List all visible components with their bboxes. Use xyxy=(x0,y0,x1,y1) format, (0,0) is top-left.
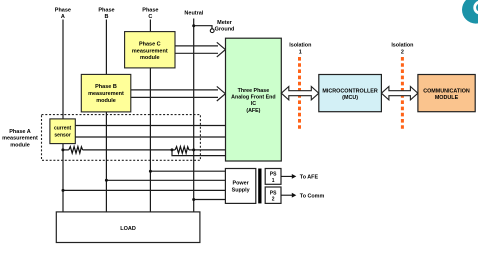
svg-text:C: C xyxy=(148,14,152,20)
wire shunt lead xyxy=(63,149,69,151)
svg-text:Analog Front End: Analog Front End xyxy=(231,95,275,101)
node junction shunt1-phaseA xyxy=(61,148,64,151)
svg-text:A: A xyxy=(61,14,65,20)
wire PS input from Phase C xyxy=(150,170,225,172)
svg-text:measurement: measurement xyxy=(132,48,168,54)
svg-text:module: module xyxy=(140,55,160,61)
svg-text:2: 2 xyxy=(401,49,404,55)
svg-text:module: module xyxy=(96,98,116,104)
node Isolation 2 label xyxy=(391,42,413,55)
svg-text:To Comm: To Comm xyxy=(300,193,325,199)
wire Phase B vertical xyxy=(105,20,107,212)
node Phase C label xyxy=(142,8,158,20)
isolation 1 dashed line xyxy=(298,57,301,131)
wire shunt1 to shunt2 xyxy=(83,149,172,151)
MCU box xyxy=(319,75,382,112)
svg-text:PS: PS xyxy=(270,172,277,178)
svg-text:(AFE): (AFE) xyxy=(246,108,260,114)
node Phase A label xyxy=(55,8,71,20)
resistor shunt 1 xyxy=(69,147,83,154)
svg-text:COMMUNICATION: COMMUNICATION xyxy=(423,88,470,94)
wire PS input from Phase A xyxy=(63,189,225,191)
wire current sensor output 2 xyxy=(75,136,225,138)
wire shunt2 leads xyxy=(172,149,175,151)
bidirectional arrow AFE-MCU xyxy=(281,87,319,100)
svg-text:B: B xyxy=(105,14,109,20)
arrow PS1 to AFE supply xyxy=(281,174,318,181)
Phase C measurement module box xyxy=(125,32,175,68)
power supply box xyxy=(225,169,255,204)
wire Neutral vertical xyxy=(193,19,195,212)
svg-text:Phase: Phase xyxy=(98,8,114,14)
svg-text:Phase A: Phase A xyxy=(9,129,31,135)
logo circle xyxy=(462,0,478,24)
PS 1 box xyxy=(265,169,281,185)
node Meter Ground label xyxy=(215,20,235,33)
block arrow Phase C to AFE xyxy=(175,42,225,57)
svg-text:sensor: sensor xyxy=(54,133,70,139)
node Isolation 1 label xyxy=(289,42,311,55)
svg-text:Meter: Meter xyxy=(217,20,233,26)
isolation 2 dashed line xyxy=(401,57,404,131)
svg-text:measurement: measurement xyxy=(2,136,38,142)
svg-text:Supply: Supply xyxy=(232,187,250,193)
node Phase B label xyxy=(98,8,114,20)
Phase B measurement module box xyxy=(81,74,131,112)
wire shunt line to AFE xyxy=(194,149,226,151)
svg-text:measurement: measurement xyxy=(88,91,124,97)
svg-text:Phase: Phase xyxy=(55,8,71,14)
node junction shunt2 left xyxy=(171,148,174,151)
svg-text:1: 1 xyxy=(272,178,275,184)
power supply isolation bar xyxy=(258,169,261,204)
bidirectional arrow MCU-COMM xyxy=(381,87,418,100)
svg-text:Phase: Phase xyxy=(142,8,158,14)
LOAD box xyxy=(56,212,200,243)
Phase A measurement module label xyxy=(2,129,38,149)
svg-text:2: 2 xyxy=(272,197,275,203)
resistor shunt 2 xyxy=(175,147,189,154)
wire current sensor output 1 xyxy=(75,125,225,127)
svg-text:MICROCONTROLLER: MICROCONTROLLER xyxy=(322,88,378,94)
svg-text:Isolation: Isolation xyxy=(391,42,413,48)
svg-text:LOAD: LOAD xyxy=(120,226,136,232)
current sensor box xyxy=(50,119,75,144)
AFE box xyxy=(226,38,282,161)
wire PS input from Neutral xyxy=(194,199,226,201)
wire kelvin sense line xyxy=(172,150,226,156)
svg-text:(MCU): (MCU) xyxy=(342,95,358,101)
communication module box xyxy=(418,75,475,112)
wire PS input from Phase B xyxy=(106,179,225,181)
svg-text:PS: PS xyxy=(270,190,277,196)
svg-text:current: current xyxy=(54,126,72,132)
svg-text:module: module xyxy=(10,143,30,149)
svg-text:MODULE: MODULE xyxy=(435,95,459,101)
svg-text:Power: Power xyxy=(233,180,250,186)
ground symbol xyxy=(210,29,214,33)
wire meter ground branch xyxy=(194,26,212,29)
svg-text:Isolation: Isolation xyxy=(289,42,311,48)
PS 2 box xyxy=(265,187,281,203)
svg-text:Ground: Ground xyxy=(215,26,235,32)
svg-text:IC: IC xyxy=(251,101,256,107)
wire Phase C vertical xyxy=(149,20,151,212)
svg-text:1: 1 xyxy=(299,49,302,55)
Phase A measurement module dashed boundary xyxy=(42,115,201,161)
svg-text:Neutral: Neutral xyxy=(184,10,203,16)
arrow PS2 to Comm supply xyxy=(281,193,324,200)
node junction neutral-ground xyxy=(192,24,195,27)
node junction shunt2-neutral xyxy=(192,148,195,151)
svg-text:Phase C: Phase C xyxy=(139,42,161,48)
svg-text:Three Phase: Three Phase xyxy=(238,88,270,94)
wire Phase A vertical xyxy=(62,20,64,212)
svg-text:Phase B: Phase B xyxy=(95,84,117,90)
block arrow Phase B to AFE xyxy=(131,86,226,101)
svg-text:To AFE: To AFE xyxy=(300,175,319,181)
